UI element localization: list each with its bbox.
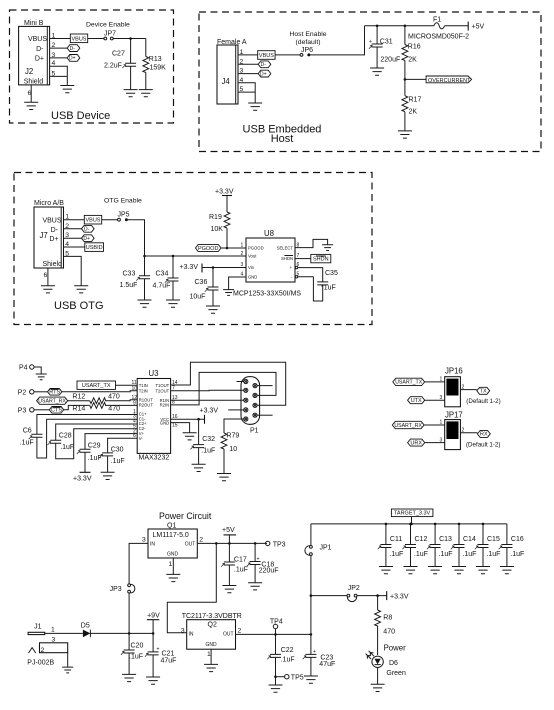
svg-text:.1uF: .1uF: [510, 551, 524, 558]
LED D6 Green Power: [366, 644, 407, 677]
svg-text:USART_TX: USART_TX: [395, 380, 423, 386]
svg-text:+: +: [369, 39, 372, 45]
svg-text:RTS: RTS: [49, 390, 60, 396]
ground U8 GND: [223, 290, 234, 296]
net label TARGET_3.3V: [391, 509, 433, 524]
net label PGOOD: [196, 245, 222, 252]
section title Power Circuit: [159, 511, 212, 521]
wire JP2 to +3.3V bar: [357, 595, 387, 597]
svg-text:6: 6: [44, 272, 48, 279]
resistor R8 470: [375, 596, 395, 655]
wire D6 to ground: [377, 668, 379, 685]
wire TARGET_3.3V rail: [311, 523, 507, 525]
regulator Q1 LM1117-5.0: [142, 523, 203, 569]
wire J7 pin1 to VBUS label: [64, 219, 85, 221]
wire J4 pin2 to D- label: [238, 63, 258, 65]
wire USART_RX to JP17 pin1: [424, 420, 445, 426]
svg-text:USART_TX: USART_TX: [82, 383, 111, 389]
wire Q1 output to TP3: [197, 542, 267, 544]
junction R8: [376, 594, 379, 597]
wire JP16 pin2 to TX label: [460, 384, 476, 390]
resistor R12 470: [72, 394, 119, 404]
wire JP7 to C27/R13: [113, 38, 146, 40]
wire U3 T1OUT pin14 loop to P1 pin8: [171, 362, 286, 405]
svg-text:3: 3: [142, 537, 146, 544]
ground U8 SELECT: [322, 245, 333, 251]
ground J4 pins: [248, 103, 262, 110]
junction Q1 out / cascade: [215, 542, 218, 545]
wire JP6 to +5V rail riser: [310, 26, 364, 55]
svg-text:SHDN: SHDN: [281, 256, 293, 261]
svg-text:10K: 10K: [211, 226, 224, 233]
svg-text:.1uF: .1uF: [88, 455, 102, 462]
wire D5 to +9V rail: [90, 632, 153, 634]
svg-text:.1uF: .1uF: [201, 448, 215, 455]
svg-text:Micro A/B: Micro A/B: [34, 200, 64, 207]
power +3.3V (C29 return): [73, 472, 92, 482]
svg-text:T2IN: T2IN: [139, 388, 148, 393]
connector J2 Mini B: [19, 20, 56, 97]
svg-text:JP16: JP16: [445, 367, 463, 376]
svg-text:PGOOD: PGOOD: [248, 246, 264, 251]
label (Default 1-2) jp17: [466, 441, 500, 448]
wire P1 pin4 stub: [228, 409, 241, 411]
connector J4 Female A: [217, 39, 247, 104]
svg-text:TARGET_3.3V: TARGET_3.3V: [394, 511, 431, 517]
svg-text:+3.3V: +3.3V: [215, 189, 234, 196]
svg-text:2: 2: [238, 628, 242, 635]
capacitor C33 1.5uF: [120, 256, 151, 300]
svg-text:USBID: USBID: [86, 245, 103, 251]
svg-text:C20: C20: [131, 643, 144, 650]
svg-text:T1OUT: T1OUT: [155, 383, 169, 388]
svg-text:PJ-002B: PJ-002B: [27, 660, 54, 667]
svg-text:C6: C6: [23, 428, 32, 435]
svg-text:2: 2: [241, 251, 244, 257]
junction C32: [197, 418, 200, 421]
wire U3 GND pin15 to ground: [171, 423, 190, 433]
svg-text:JP5: JP5: [118, 212, 130, 219]
USB OTG section dashed border: [14, 173, 372, 325]
wire U3 T2OUT pin7 to P1 pin2: [171, 389, 241, 392]
net label D+ (otg): [82, 235, 95, 242]
jumper JP2: [347, 585, 360, 602]
wire U3 R2IN pin8 loop to P1 pin7: [171, 372, 276, 405]
svg-text:J4: J4: [222, 77, 231, 86]
wire USART_TX to JP16 pin1: [425, 377, 445, 383]
svg-text:P4: P4: [19, 365, 28, 372]
svg-text:+5V: +5V: [472, 24, 485, 31]
wire VBUS label to JP7: [88, 38, 104, 40]
wire U8 SELECT pin8 to ground: [295, 239, 328, 247]
wire Q1 gnd to ground: [172, 558, 174, 574]
ground C33: [138, 300, 152, 307]
connector J1 PJ-002B power jack: [27, 624, 67, 668]
svg-text:(Default 1-2): (Default 1-2): [466, 441, 500, 448]
svg-text:1: 1: [241, 243, 244, 249]
svg-text:D-: D-: [70, 46, 76, 52]
wire JP17 pin2 to RX label: [460, 427, 477, 433]
capacitor C16 .1uF: [499, 524, 525, 567]
svg-text:GND: GND: [206, 642, 218, 648]
svg-text:OTG Enable: OTG Enable: [104, 198, 142, 205]
svg-text:3: 3: [52, 637, 56, 644]
svg-text:10uF: 10uF: [190, 294, 206, 301]
wire JP2 run: [311, 595, 347, 597]
svg-text:R14: R14: [72, 406, 85, 413]
resistor R14 470: [72, 403, 120, 413]
wire fuse to +5V: [445, 25, 469, 27]
test point P4: [19, 365, 34, 372]
svg-text:R19: R19: [209, 214, 222, 221]
svg-text:R16: R16: [408, 44, 421, 51]
svg-text:D6: D6: [389, 660, 398, 667]
connector J7 Micro A/B: [34, 200, 69, 279]
svg-text:D-: D-: [84, 227, 90, 233]
svg-text:USB OTG: USB OTG: [54, 300, 104, 312]
power +9V: [147, 613, 160, 634]
svg-text:4: 4: [241, 271, 244, 277]
svg-text:JP1: JP1: [320, 545, 332, 552]
wire P1 pin9 stub: [260, 414, 273, 416]
wire J2 pin3 to D+ label: [50, 57, 67, 59]
svg-text:470: 470: [108, 406, 120, 413]
svg-text:Host: Host: [271, 133, 294, 145]
junction C31: [376, 25, 379, 28]
svg-text:47uF: 47uF: [161, 658, 177, 665]
svg-text:C11: C11: [390, 536, 402, 543]
capacitor C27 2.2uF: [104, 39, 136, 90]
svg-text:+5V: +5V: [222, 527, 235, 534]
svg-text:1: 1: [207, 651, 211, 658]
jumper JP1: [305, 524, 332, 635]
svg-text:2: 2: [462, 384, 465, 390]
svg-text:JP17: JP17: [445, 411, 463, 420]
power +3.3V (R19 pullup): [215, 189, 234, 196]
svg-text:Host Enable: Host Enable: [289, 31, 326, 38]
wire Vout rail to U8 pin2: [145, 255, 247, 257]
svg-text:VBUS: VBUS: [86, 218, 101, 224]
svg-text:R2OUT: R2OUT: [139, 402, 154, 407]
svg-text:C35: C35: [325, 270, 338, 277]
resistor R13 159K: [143, 39, 166, 90]
svg-text:2K: 2K: [409, 109, 418, 116]
op-amp U3 MAX3232: [132, 369, 178, 462]
junction C34: [172, 255, 175, 258]
net label D- (device): [67, 45, 80, 52]
svg-text:C32: C32: [202, 436, 215, 443]
wire P4 to ground: [34, 367, 41, 374]
junction TP4/C22: [274, 633, 277, 636]
svg-text:D+: D+: [35, 56, 44, 63]
net label RX: [477, 430, 490, 437]
svg-text:2K: 2K: [408, 57, 417, 64]
svg-text:U8: U8: [264, 229, 274, 238]
test point TP4: [270, 619, 283, 635]
svg-text:SELECT: SELECT: [277, 246, 294, 251]
jumper block JP16: [445, 367, 463, 407]
ground C31: [370, 68, 384, 75]
svg-text:U3: U3: [149, 369, 159, 378]
ground C23: [304, 676, 318, 683]
svg-text:J7: J7: [40, 231, 48, 240]
svg-text:R17: R17: [409, 97, 422, 104]
svg-text:MICROSMD050F-2: MICROSMD050F-2: [408, 34, 469, 41]
wire R14 to U3 pin9: [105, 404, 137, 406]
ground U3: [183, 433, 197, 440]
resistor R17 2K: [402, 79, 421, 130]
svg-text:15: 15: [172, 422, 178, 428]
svg-text:GND: GND: [248, 274, 257, 279]
capacitor C11 .1uF: [378, 524, 404, 567]
svg-text:.1uF: .1uF: [20, 440, 34, 447]
wire J4 pin3 to D+ label: [238, 73, 258, 75]
svg-text:47uF: 47uF: [319, 661, 335, 668]
power +5V (host): [468, 22, 484, 31]
junction C12: [409, 523, 412, 526]
svg-text:OVERCURRENT: OVERCURRENT: [428, 78, 471, 84]
ground C30: [101, 472, 115, 479]
wire JP3 to 9V rail: [128, 593, 130, 634]
svg-text:C29: C29: [88, 443, 101, 450]
capacitor C22 .1uF: [267, 634, 294, 676]
svg-text:C33: C33: [123, 271, 136, 278]
section title USB OTG: [54, 300, 104, 312]
wire R12 to U3 pin12: [105, 399, 137, 402]
wire U3 VCC pin16 to +3.3V: [171, 418, 205, 420]
svg-text:V-: V-: [139, 436, 144, 441]
svg-text:1: 1: [440, 420, 443, 426]
wire J2 pin2 to D- label: [50, 47, 67, 49]
ground C21: [146, 677, 160, 684]
svg-text:Female A: Female A: [217, 39, 247, 46]
svg-text:D+: D+: [49, 236, 58, 243]
wire U3 R1IN pin13 to P1 pin3: [171, 399, 241, 401]
label OTG Enable: [104, 198, 142, 205]
net label USART_RX (jp17): [392, 421, 424, 429]
capacitor C17 .1uF: [221, 543, 248, 585]
USB Embedded Host section dashed border: [199, 12, 541, 152]
capacitor C20 .1uF: [121, 633, 144, 674]
svg-text:MAX3232: MAX3232: [139, 455, 170, 462]
junction Q2 out / JP1 vertical: [310, 633, 313, 636]
svg-text:9: 9: [133, 400, 136, 406]
svg-text:D+: D+: [69, 56, 76, 62]
svg-text:VBUS: VBUS: [72, 36, 87, 42]
jumper JP6: [300, 47, 313, 56]
svg-text:Q2: Q2: [208, 622, 217, 629]
wire UTX to JP16 pin3: [425, 395, 445, 401]
svg-text:(Default 1-2): (Default 1-2): [466, 398, 500, 405]
USB Device section dashed border: [10, 10, 174, 123]
svg-text:GND: GND: [167, 552, 179, 558]
ground D6: [371, 684, 385, 691]
svg-text:470: 470: [108, 394, 120, 401]
net label VBUS (host): [258, 51, 275, 60]
svg-text:.1uF: .1uF: [462, 551, 476, 558]
svg-text:D+: D+: [260, 71, 267, 77]
svg-text:470: 470: [383, 629, 395, 636]
wire P1 pin6 stub: [260, 385, 273, 387]
svg-text:+: +: [257, 557, 260, 563]
ground J7 pin5: [74, 286, 88, 293]
wire +3.3V bar to U8 pin3: [202, 267, 246, 269]
junction TP5: [274, 675, 277, 678]
svg-text:.1uF: .1uF: [111, 458, 125, 465]
svg-text:VBUS: VBUS: [28, 36, 47, 43]
svg-text:*1uF: *1uF: [321, 285, 336, 292]
junction R19 / PGOOD: [226, 247, 229, 250]
net label USART_TX: [77, 381, 116, 389]
svg-text:C30: C30: [111, 447, 124, 454]
resistor R16 2K: [402, 26, 421, 80]
svg-text:10: 10: [132, 386, 138, 392]
svg-text:+: +: [313, 649, 316, 655]
capacitor C35 1uF: [317, 270, 338, 292]
label Device Enable: [86, 22, 130, 29]
svg-text:C14: C14: [463, 536, 476, 543]
wire J2 pin1 to VBUS label: [50, 38, 71, 40]
svg-text:USART_RX: USART_RX: [38, 399, 66, 405]
svg-text:3: 3: [241, 262, 244, 268]
wire Q1 input from JP3: [129, 543, 148, 584]
svg-text:Power: Power: [384, 644, 407, 653]
ground Q1: [166, 574, 180, 581]
wire U8 C+ pin6 to C35: [295, 266, 322, 282]
svg-text:P3: P3: [18, 408, 27, 415]
svg-text:D-: D-: [51, 227, 59, 234]
svg-text:D-: D-: [36, 46, 44, 53]
svg-text:(default): (default): [296, 39, 321, 46]
net label UTX: [408, 397, 425, 404]
net label URX: [408, 439, 425, 446]
svg-text:CTS: CTS: [51, 408, 62, 414]
net label D+ (host): [258, 70, 271, 77]
wire VBUS label to JP6: [275, 54, 300, 56]
svg-text:220uF: 220uF: [259, 568, 279, 575]
wire J7 pin2 to D- label: [64, 228, 82, 230]
diode D5: [81, 623, 91, 638]
svg-text:+3.3V: +3.3V: [73, 476, 92, 483]
svg-text:MCP1253-33X50I/MS: MCP1253-33X50I/MS: [233, 291, 301, 298]
capacitor C36 10uF: [190, 268, 219, 307]
wire JP5 to C33 node: [128, 220, 145, 256]
net label USART_RX: [37, 397, 68, 404]
power +5V (power section): [222, 527, 236, 543]
svg-text:C27: C27: [112, 51, 125, 58]
svg-text:VBUS: VBUS: [259, 53, 274, 59]
svg-text:RX: RX: [480, 432, 488, 438]
wire P2 to RTS label: [34, 391, 48, 393]
wire CTS to R14: [64, 405, 90, 409]
svg-text:GND: GND: [160, 420, 169, 425]
junction C14: [458, 523, 461, 526]
svg-text:C34: C34: [156, 271, 169, 278]
svg-text:J2: J2: [25, 67, 33, 76]
net label OVERCURRENT: [426, 76, 472, 84]
wire U8 pin4 GND to ground: [229, 277, 246, 290]
wire J7 pin3 to D+ label: [64, 237, 82, 239]
ground J2 shield: [24, 102, 38, 109]
net label VBUS (otg): [84, 215, 101, 224]
svg-text:D+: D+: [83, 236, 90, 242]
ground C15: [476, 567, 490, 574]
svg-text:2: 2: [462, 427, 465, 433]
capacitor C14 .1uF: [451, 524, 477, 567]
svg-text:1: 1: [440, 377, 443, 383]
ground C36: [206, 306, 220, 313]
net label RTS: [48, 389, 62, 396]
svg-text:Shield: Shield: [24, 79, 44, 86]
svg-text:1: 1: [51, 627, 55, 634]
svg-text:T1IN: T1IN: [139, 383, 148, 388]
wire P3 to CTS label: [34, 409, 49, 411]
svg-text:C22: C22: [281, 647, 294, 654]
test point TP5: [276, 675, 304, 682]
svg-text:.1uF: .1uF: [439, 551, 453, 558]
svg-text:3: 3: [440, 395, 443, 401]
wire VBUS label to JP5: [102, 219, 118, 221]
svg-text:OUT: OUT: [223, 631, 234, 637]
svg-text:D5: D5: [81, 623, 90, 630]
svg-text:C17: C17: [234, 557, 247, 564]
ground C34: [166, 300, 180, 307]
junction rail/target label: [410, 523, 413, 526]
svg-text:D-: D-: [261, 62, 267, 68]
wire USART_RX to R12: [68, 400, 90, 402]
ground C22: [269, 677, 283, 693]
junction C33/Vout rail: [143, 255, 146, 258]
net label SHDN: [311, 254, 331, 262]
svg-text:Vout: Vout: [248, 254, 257, 259]
svg-text:+: +: [157, 647, 160, 653]
svg-text:USB Device: USB Device: [51, 110, 110, 122]
svg-text:4.7uF: 4.7uF: [153, 283, 171, 290]
wire J7 pin5 to ground: [64, 256, 82, 285]
svg-text:Shield: Shield: [43, 261, 63, 268]
wire URX to JP17 pin3: [425, 437, 445, 443]
svg-text:IN: IN: [189, 631, 194, 637]
test point P2: [18, 390, 34, 397]
capacitor C13 .1uF: [427, 524, 453, 567]
ground R13: [139, 90, 153, 97]
capacitor C28 .1uF (C2 flying cap): [48, 424, 138, 459]
svg-text:R79: R79: [226, 433, 239, 440]
capacitor C30 .1uF (V- cap): [99, 438, 137, 472]
svg-text:Device Enable: Device Enable: [86, 22, 130, 29]
svg-text:C31: C31: [380, 39, 393, 46]
capacitor C12 .1uF: [402, 524, 428, 567]
power +3.3V (power section): [387, 591, 409, 600]
capacitor C31 220uF: [369, 26, 400, 68]
svg-text:TC2117-3.3VDBTR: TC2117-3.3VDBTR: [182, 613, 242, 620]
svg-text:VBUS: VBUS: [42, 217, 61, 224]
svg-text:Q1: Q1: [167, 523, 176, 530]
section title USB Embedded Host: [243, 124, 322, 146]
test point P3: [18, 408, 34, 415]
svg-text:SHDN: SHDN: [313, 257, 329, 263]
wire J7 pin4 to USBID label: [64, 246, 85, 248]
svg-text:PGOOD: PGOOD: [198, 246, 219, 252]
junction +5V bar: [228, 542, 231, 545]
capacitor C21 47uF: [145, 633, 177, 677]
label Host Enable (default): [289, 31, 326, 46]
capacitor C18 220uF: [247, 543, 279, 582]
junction C18: [254, 542, 257, 545]
svg-text:OUT: OUT: [185, 542, 196, 548]
svg-text:.1uF: .1uF: [281, 657, 295, 664]
wire J1 pin1 to D5: [45, 632, 83, 634]
